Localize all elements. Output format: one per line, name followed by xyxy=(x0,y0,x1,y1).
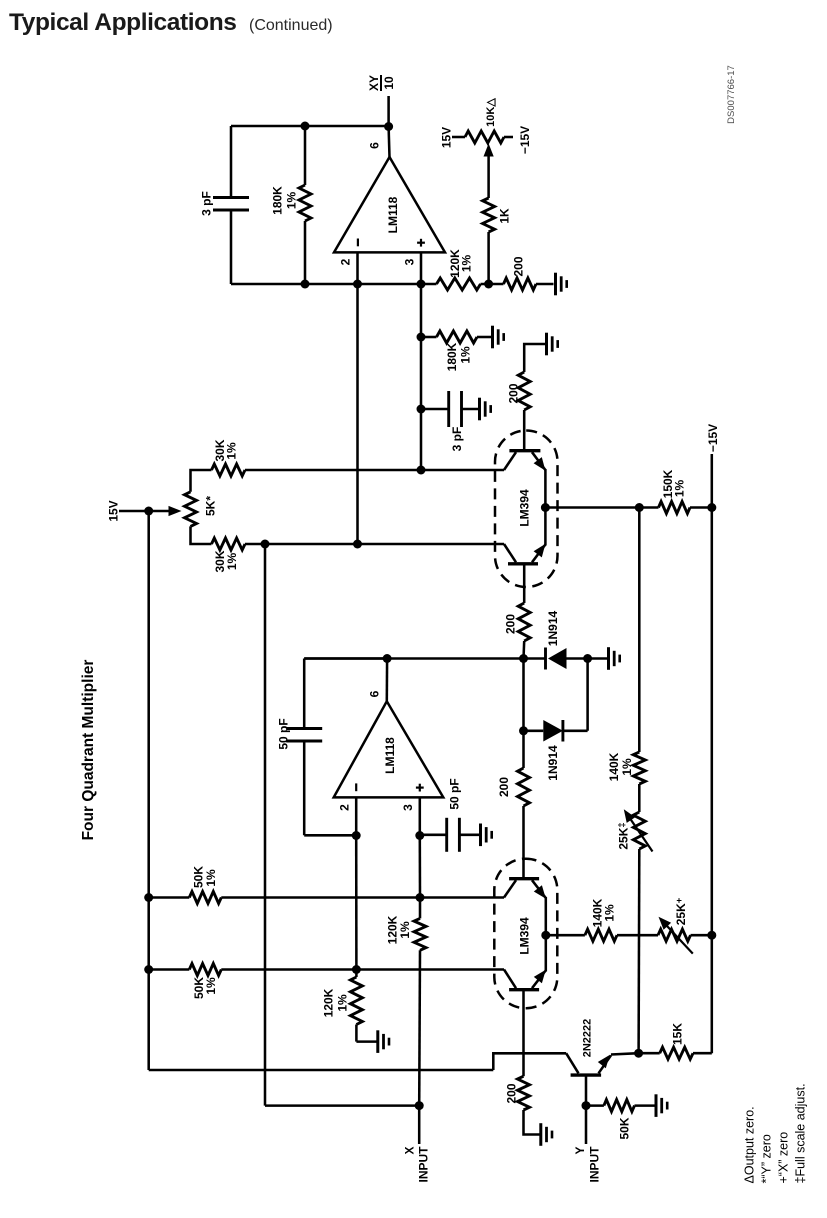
svg-text:(Continued): (Continued) xyxy=(249,17,333,34)
U2 inverting input mark xyxy=(355,783,357,791)
Q5 base lead xyxy=(585,1075,588,1106)
wire emitter node to 150K xyxy=(545,506,658,509)
svg-text:X: X xyxy=(403,1147,417,1155)
ground after C2 xyxy=(478,398,481,421)
svg-text:5K*: 5K* xyxy=(204,496,218,516)
resistor R9 30K 1% xyxy=(212,464,246,476)
Q5 emitter xyxy=(599,1055,612,1073)
svg-text:−15V: −15V xyxy=(706,424,720,452)
resistor R6 180K 1% xyxy=(437,331,478,343)
Q4 emitter xyxy=(532,970,546,988)
svg-text:1%: 1% xyxy=(459,346,473,364)
wire x=265 rail xyxy=(264,544,267,1106)
node 15V junction xyxy=(144,507,153,516)
R8 wiper arrow xyxy=(149,510,170,513)
svg-text:180K: 180K xyxy=(271,186,285,215)
node Q3/Q4 emitters xyxy=(541,931,550,940)
R4 wiper arrow xyxy=(484,144,494,157)
svg-text:10: 10 xyxy=(382,76,396,90)
wire between diode rows xyxy=(522,659,525,731)
svg-text:200: 200 xyxy=(507,383,521,403)
svg-text:2: 2 xyxy=(339,258,353,265)
svg-text:Typical Applications: Typical Applications xyxy=(9,9,237,36)
svg-text:140K: 140K xyxy=(607,752,621,781)
wire to 200 below diodes xyxy=(522,731,525,768)
svg-text:1%: 1% xyxy=(204,977,218,995)
wire X input terminal xyxy=(418,1106,421,1144)
resistor R7 200 xyxy=(518,372,530,410)
wire U1 pin 2 lead xyxy=(356,252,359,284)
wire pin3 vertical to base line xyxy=(420,284,423,470)
node lower diode junction xyxy=(519,726,528,735)
wire C4 to ground xyxy=(459,834,480,837)
node op-amp U1 output junction xyxy=(384,122,393,131)
wire 5K to bottom base line xyxy=(191,526,212,544)
Q4 base lead xyxy=(504,970,516,989)
capacitor C3 50 pF xyxy=(286,727,322,730)
svg-text:XY: XY xyxy=(367,75,381,91)
svg-text:ΔOutput zero.: ΔOutput zero. xyxy=(743,1106,757,1183)
node base line / pin3 line xyxy=(417,466,426,475)
node U1 pin3 junction xyxy=(417,280,426,289)
resistor R19 120K 1% xyxy=(414,918,426,950)
U1 non-inverting input mark xyxy=(420,239,422,247)
wire 180K gnd branch lead xyxy=(421,336,437,339)
svg-text:50K: 50K xyxy=(618,1117,632,1139)
Q1 base lead xyxy=(504,452,516,470)
ground after C4 xyxy=(479,824,482,847)
svg-text:200: 200 xyxy=(504,614,518,634)
wire Q4 collector to 200 xyxy=(522,1075,525,1078)
potentiometer R14 25K&#8225; xyxy=(633,812,645,849)
resistor R11 200 xyxy=(518,603,530,641)
node 3pF/180K top junction xyxy=(301,122,310,131)
svg-text:200: 200 xyxy=(512,256,526,276)
node pin2 drop junction xyxy=(353,540,362,549)
svg-text:6: 6 xyxy=(368,142,382,149)
node 1K/120K/200 junction xyxy=(484,280,493,289)
wire 140K branch vertical xyxy=(638,508,641,753)
svg-text:LM394: LM394 xyxy=(518,489,532,527)
svg-text:15V: 15V xyxy=(107,500,121,521)
resistor R13 140K 1% xyxy=(633,752,645,784)
op-amp U1 LM118 xyxy=(334,157,445,252)
svg-text:Y: Y xyxy=(573,1147,587,1155)
resistor R16 50K 1% xyxy=(189,892,221,904)
wire 15V lead to pot xyxy=(452,136,465,139)
resistor R5 1K xyxy=(483,198,495,232)
svg-text:1K: 1K xyxy=(498,208,512,224)
wire op2 output rail y=658.5 xyxy=(304,657,545,660)
svg-text:1%: 1% xyxy=(460,254,474,272)
Q1 emitter drop xyxy=(544,469,547,508)
node U2 output xyxy=(383,654,392,663)
R14 adjust arrow xyxy=(627,814,653,852)
node U2 pin3 junction xyxy=(415,831,424,840)
resistor R18 120K 1% xyxy=(350,977,362,1025)
capacitor C1 3 pF xyxy=(213,196,249,199)
wire 150K to rail xyxy=(690,506,712,509)
svg-text:180K: 180K xyxy=(445,342,459,371)
svg-text:1%: 1% xyxy=(620,758,634,776)
svg-text:+“X” zero: +“X” zero xyxy=(777,1132,791,1184)
Q3 emitter drop xyxy=(545,897,548,935)
Q2 emitter rise xyxy=(544,508,547,546)
ground after R6 xyxy=(491,326,494,349)
node 140K branch top xyxy=(635,503,644,512)
Q2 collector drop xyxy=(523,564,526,603)
svg-text:1%: 1% xyxy=(225,442,239,460)
U1 inverting input mark xyxy=(357,239,359,247)
wire summing rail y=284 xyxy=(231,283,437,286)
svg-text:10K△: 10K△ xyxy=(485,98,497,127)
wire U2 pin 2 lead xyxy=(355,797,358,835)
svg-text:1%: 1% xyxy=(336,994,350,1012)
wire X input riser xyxy=(419,836,422,898)
svg-text:INPUT: INPUT xyxy=(588,1146,602,1183)
Q1 emitter xyxy=(532,452,545,470)
Q2 emitter xyxy=(532,545,545,563)
wire pin3 to 50pF xyxy=(420,834,447,837)
node diode node left xyxy=(519,654,528,663)
svg-text:15K: 15K xyxy=(671,1023,685,1045)
svg-text:−15V: −15V xyxy=(518,126,532,154)
wire bottom base line y=544 xyxy=(245,543,504,546)
wire -15V rail xyxy=(711,454,714,1053)
wire output stub to XY/10 terminal xyxy=(387,96,390,126)
resistor R17 50K 1% xyxy=(189,964,221,976)
wire 25K to rail xyxy=(691,934,712,937)
wire R11 to diode node xyxy=(522,641,525,659)
wire 200 collector branch xyxy=(524,344,546,372)
Q4 collector drop xyxy=(522,990,525,1076)
svg-text:Four Quadrant Multiplier: Four Quadrant Multiplier xyxy=(80,660,97,841)
ground after R23 xyxy=(655,1094,658,1117)
svg-text:1%: 1% xyxy=(225,552,239,570)
diode D1 1N914 xyxy=(544,648,547,670)
wire rail step to 2N2222 xyxy=(493,1053,566,1070)
resistor R24 200 xyxy=(518,1076,530,1110)
svg-text:INPUT: INPUT xyxy=(417,1146,431,1183)
wire 180K branch vertical xyxy=(304,126,307,185)
R21 adjust arrow xyxy=(662,921,693,954)
svg-text:*“Y” zero: *“Y” zero xyxy=(760,1134,774,1183)
svg-text:1%: 1% xyxy=(673,479,687,497)
node X base junction xyxy=(416,893,425,902)
wire diode loop vertical xyxy=(586,659,589,731)
wire 3pF left branch vertical xyxy=(230,126,233,198)
wire Y input terminal xyxy=(585,1106,588,1144)
transistor pair Q1/Q2 LM394 outline xyxy=(495,431,558,588)
svg-text:LM118: LM118 xyxy=(383,737,397,774)
label output XY/10 xyxy=(367,75,396,91)
transistor pair Q3/Q4 LM394 outline xyxy=(494,859,557,1009)
svg-text:3: 3 xyxy=(401,804,415,811)
wire 3pF gnd branch lead xyxy=(421,408,449,411)
node upper 50K left xyxy=(144,893,153,902)
U2 non-inverting input mark xyxy=(419,784,421,792)
node U1 pin2 junction xyxy=(353,280,362,289)
resistor R23 50K xyxy=(604,1100,635,1112)
Q3 base lead xyxy=(504,880,516,897)
node left rail branch xyxy=(261,540,270,549)
ground after R3 xyxy=(554,273,557,296)
Q3 emitter xyxy=(532,880,546,898)
wire U1 pin2 drop xyxy=(356,284,359,544)
ground at diodes xyxy=(607,647,610,670)
svg-text:LM394: LM394 xyxy=(518,917,532,955)
svg-text:1%: 1% xyxy=(204,869,218,887)
svg-text:50 pF: 50 pF xyxy=(448,778,462,809)
wire U2 pin2 drop xyxy=(355,836,358,970)
wire emitter node to 140K xyxy=(546,934,585,937)
wire to diode ground xyxy=(588,657,609,660)
svg-text:2N2222: 2N2222 xyxy=(582,1019,594,1058)
capacitor C4 50 pF xyxy=(445,818,448,852)
wire top feedback rail y=126 xyxy=(231,125,389,128)
node U2 pin2 junction xyxy=(352,831,361,840)
svg-text:120K: 120K xyxy=(322,988,336,1017)
Q5 collector lead xyxy=(566,1053,578,1073)
wire top base line y=470 xyxy=(245,469,504,472)
svg-text:DS007766-17: DS007766-17 xyxy=(726,65,737,124)
op-amp U2 LM118 xyxy=(334,701,444,797)
wire R24 to ground xyxy=(524,1110,541,1135)
transistor Q4 base bar xyxy=(509,988,539,991)
resistor R15 200 xyxy=(518,768,530,806)
resistor R2 120K 1% xyxy=(437,278,481,290)
node Y input junction xyxy=(582,1101,591,1110)
resistor R1 180K 1% xyxy=(299,185,311,221)
node diode-gnd junction xyxy=(583,654,592,663)
node 180K-gnd branch xyxy=(417,333,426,342)
diode D2 1N914 xyxy=(543,720,563,742)
wire U2 pin 3 lead xyxy=(419,797,422,835)
transistor Q3 base bar xyxy=(509,877,539,880)
svg-text:15V: 15V xyxy=(440,127,454,148)
wire pot to -15V xyxy=(504,136,513,139)
svg-text:200: 200 xyxy=(505,1083,519,1103)
resistor R22 15K xyxy=(660,1047,693,1059)
svg-text:200: 200 xyxy=(497,777,511,797)
svg-text:3 pF: 3 pF xyxy=(450,427,464,452)
node pin2 feedback junction xyxy=(352,965,361,974)
svg-text:1N914: 1N914 xyxy=(546,745,560,781)
svg-text:2: 2 xyxy=(338,804,352,811)
node 3pF-gnd branch xyxy=(417,405,426,414)
node 180K bottom xyxy=(301,280,310,289)
wire 1K to summing rail xyxy=(487,232,490,284)
node 15K junction xyxy=(634,1049,643,1058)
Q2 base lead xyxy=(504,544,516,562)
ground after R24 xyxy=(539,1123,542,1146)
potentiometer R4 10K xyxy=(465,131,504,143)
resistor R3 200 xyxy=(504,278,537,290)
node X input junction xyxy=(415,1101,424,1110)
ground above 200 xyxy=(545,333,548,356)
node -15V rail at 25K xyxy=(707,931,716,940)
wire U1 pin 3 lead xyxy=(420,252,423,284)
svg-text:3 pF: 3 pF xyxy=(200,191,214,216)
svg-text:50 pF: 50 pF xyxy=(277,718,291,749)
wire 140K to 25K pot xyxy=(617,934,658,937)
svg-text:1N914: 1N914 xyxy=(546,611,560,647)
capacitor C2 3 pF xyxy=(447,391,450,427)
svg-text:1%: 1% xyxy=(398,921,412,939)
svg-text:3: 3 xyxy=(403,258,417,265)
svg-text:‡Full scale adjust.: ‡Full scale adjust. xyxy=(794,1083,808,1183)
Q4 emitter rise xyxy=(545,935,548,971)
node -15V rail at 150K xyxy=(707,503,716,512)
potentiometer R8 5K* xyxy=(185,492,197,527)
resistor R12 150K 1% xyxy=(659,502,691,514)
resistor R20 140K 1% xyxy=(585,929,617,941)
wire 120K-gnd below xyxy=(355,970,358,978)
wire R15 to Q3 collector xyxy=(522,806,525,879)
wire 15V lead xyxy=(119,510,149,513)
svg-text:1%: 1% xyxy=(285,191,299,209)
node lower 50K left xyxy=(144,965,153,974)
svg-text:1%: 1% xyxy=(603,904,617,922)
wire emitter to 15K node xyxy=(611,1053,639,1054)
wire 5K to top base line xyxy=(191,470,212,492)
transistor Q1 base bar xyxy=(509,449,540,452)
wire 50pF feedback loop xyxy=(304,657,387,660)
transistor Q2 base bar xyxy=(508,562,538,565)
potentiometer R21 25K+ xyxy=(658,929,691,941)
resistor R10 30K 1% xyxy=(212,538,246,550)
ground after R18 xyxy=(376,1030,379,1053)
transistor Q5 2N2222 base bar xyxy=(571,1073,602,1076)
svg-text:6: 6 xyxy=(368,690,382,697)
svg-text:LM118: LM118 xyxy=(386,196,400,233)
wire 15V left rail xyxy=(147,511,150,1070)
node Q1/Q2 emitters xyxy=(541,503,550,512)
